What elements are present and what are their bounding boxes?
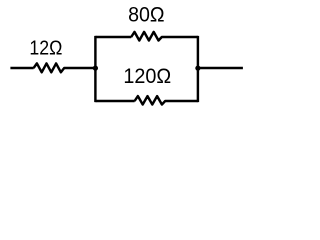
svg-text:120Ω: 120Ω	[123, 65, 171, 88]
svg-text:12Ω: 12Ω	[29, 37, 62, 60]
svg-text:80Ω: 80Ω	[128, 4, 165, 27]
